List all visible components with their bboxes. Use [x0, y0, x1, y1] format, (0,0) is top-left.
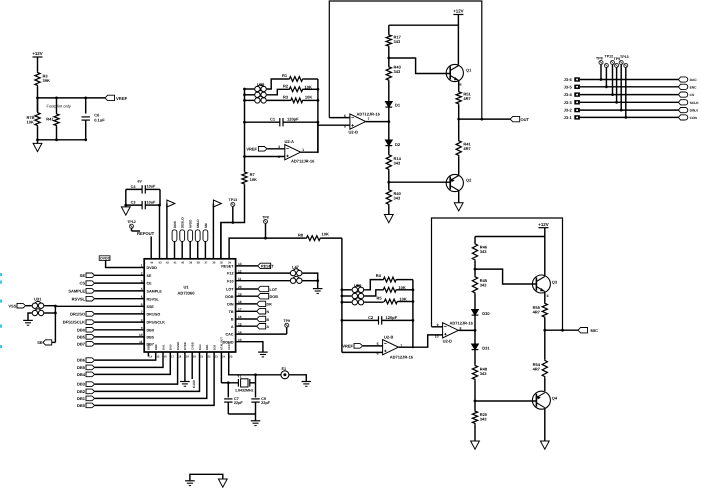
svg-text:XTALOUT: XTALOUT [220, 337, 224, 350]
svg-text:343: 343 [394, 69, 401, 74]
wire [398, 301, 413, 303]
svg-text:TP9: TP9 [283, 319, 290, 323]
svg-text:AD712JR-16: AD712JR-16 [450, 320, 474, 325]
svg-text:DB1: DB1 [205, 344, 209, 350]
svg-text:SSE: SSE [147, 305, 155, 309]
wire [95, 329, 144, 331]
svg-text:E1: E1 [282, 367, 287, 371]
wire output to bus [301, 151, 318, 153]
resistor R14 343 [386, 154, 391, 170]
svg-text:10K: 10K [305, 84, 312, 89]
svg-text:U1: U1 [183, 285, 189, 290]
wire [28, 313, 32, 320]
ground DGND bottom pin [184, 352, 186, 382]
wire [580, 94, 679, 96]
testpoint TP11 [624, 64, 628, 68]
svg-text:343: 343 [480, 417, 487, 422]
testpoint TP12 [130, 224, 134, 228]
svg-text:7: 7 [368, 117, 370, 121]
wire feedback box 2 [432, 218, 563, 330]
svg-text:DB8: DB8 [154, 344, 158, 350]
wire output [458, 329, 475, 331]
wire to Q3 base [475, 269, 536, 284]
wire pin6 from jumper [55, 305, 144, 307]
power flag pin 42 [166, 204, 168, 259]
tag SCLK [678, 100, 687, 105]
svg-text:DFS/SCLK: DFS/SCLK [147, 321, 166, 325]
svg-text:DA4: DA4 [198, 344, 202, 350]
svg-text:18: 18 [178, 355, 182, 359]
svg-text:C2: C2 [368, 315, 374, 320]
svg-text:A: A [231, 325, 234, 329]
svg-text:44: 44 [150, 261, 154, 265]
wire [106, 260, 145, 267]
ground [540, 441, 549, 449]
svg-text:DFS1/SCLK: DFS1/SCLK [63, 320, 85, 325]
svg-text:B: B [231, 318, 234, 322]
svg-text:R4: R4 [376, 273, 382, 278]
svg-text:E: E [460, 83, 462, 87]
svg-text:+12V: +12V [32, 51, 42, 56]
wire [321, 237, 342, 239]
svg-text:AD712JR-16: AD712JR-16 [390, 354, 414, 359]
resistor R45 343 [472, 276, 477, 294]
bottom pin stubs [147, 352, 149, 357]
wire REFOUT [150, 237, 152, 259]
svg-text:4R7: 4R7 [533, 367, 541, 372]
wire to U2-D noninv [413, 335, 443, 347]
wire [317, 122, 319, 153]
wire [245, 94, 255, 96]
svg-text:MIC: MIC [591, 328, 598, 333]
wire to Q2 base [389, 181, 450, 183]
svg-text:120pF: 120pF [287, 117, 299, 122]
svg-text:22pF: 22pF [234, 401, 244, 405]
tag LOT [236, 288, 258, 290]
wire [474, 350, 476, 365]
svg-text:VSS: VSS [8, 303, 16, 308]
wire [302, 280, 317, 282]
resistor R41 [54, 113, 59, 126]
svg-text:20: 20 [193, 355, 197, 359]
IC U1 AD73360 [144, 259, 235, 352]
svg-text:LOT: LOT [226, 288, 234, 292]
wire [329, 117, 350, 119]
svg-text:CAC: CAC [226, 333, 234, 337]
wire [250, 382, 256, 384]
wire [95, 298, 144, 300]
wire [457, 15, 459, 65]
svg-text:J3-1: J3-1 [564, 115, 573, 120]
svg-text:DR1/SO: DR1/SO [70, 312, 85, 317]
svg-text:LOT: LOT [270, 288, 278, 292]
svg-text:N: N [267, 310, 270, 314]
wire [412, 320, 414, 348]
svg-text:D30: D30 [482, 311, 490, 316]
capacitor C6 0.1uF [82, 116, 90, 118]
wire [388, 170, 390, 189]
wire [363, 345, 383, 347]
svg-text:D30: D30 [212, 344, 216, 350]
wire [37, 57, 39, 72]
svg-text:Q3: Q3 [552, 280, 558, 285]
svg-text:R1: R1 [282, 73, 288, 78]
svg-text:DOB: DOB [225, 295, 234, 299]
svg-text:D31: D31 [482, 346, 490, 351]
ground [23, 319, 33, 321]
svg-text:120pF: 120pF [386, 315, 398, 320]
svg-text:DIN,0: DIN,0 [690, 109, 699, 113]
svg-text:RSVSL: RSVSL [147, 297, 160, 301]
wire collector [544, 245, 546, 276]
svg-text:343: 343 [394, 39, 401, 44]
wire [388, 146, 390, 154]
svg-text:C100: C100 [192, 380, 196, 388]
wire [388, 205, 390, 214]
resistor R3 10K [290, 98, 304, 103]
svg-text:U2-B: U2-B [349, 130, 358, 135]
resistor R17 343 [386, 34, 391, 47]
svg-text:AD712JR-16: AD712JR-16 [357, 112, 381, 117]
ground earth [185, 480, 195, 482]
svg-text:36: 36 [212, 261, 216, 265]
wire [289, 375, 306, 382]
wire [580, 79, 679, 81]
wire [342, 301, 352, 303]
wire [95, 352, 178, 384]
testpoint TP14 pin14 [236, 333, 287, 335]
resistor R46 343 [472, 243, 477, 261]
svg-text:6: 6 [344, 114, 346, 118]
svg-text:TP13: TP13 [620, 55, 629, 59]
svg-text:DB9: DB9 [147, 344, 151, 350]
svg-text:39: 39 [189, 261, 193, 265]
svg-text:CVDD: CVDD [191, 342, 195, 350]
wire right bus gain2 [412, 280, 414, 321]
wire [228, 413, 255, 415]
ground [258, 351, 268, 353]
svg-text:14: 14 [149, 355, 153, 359]
wire left bus gain2 [341, 238, 343, 352]
svg-text:SCLK: SCLK [690, 101, 700, 105]
svg-text:TP12: TP12 [127, 220, 136, 224]
svg-text:DESLO: DESLO [181, 217, 185, 229]
svg-text:DB7: DB7 [77, 342, 86, 347]
ground [255, 414, 257, 421]
svg-text:6V: 6V [138, 180, 143, 184]
svg-text:15: 15 [156, 355, 160, 359]
wire [474, 380, 476, 410]
svg-text:D2: D2 [395, 142, 401, 147]
svg-text:J3-5: J3-5 [564, 84, 573, 89]
wire [85, 120, 87, 140]
svg-text:25: 25 [229, 355, 233, 359]
wire [544, 377, 546, 391]
svg-text:DGND: DGND [176, 342, 180, 350]
wire [364, 280, 382, 290]
wire [267, 99, 290, 101]
svg-text:TP8: TP8 [262, 215, 269, 219]
wire [245, 99, 255, 101]
svg-text:REFOUT: REFOUT [137, 231, 155, 236]
wire [364, 301, 384, 303]
svg-text:SE: SE [37, 340, 43, 345]
capacitor C3 120pF [342, 319, 378, 321]
diode D1 [385, 102, 392, 108]
wire [388, 47, 390, 66]
ground [384, 215, 393, 223]
svg-text:38: 38 [197, 261, 201, 265]
svg-text:10K: 10K [399, 297, 406, 302]
testpoint TP8 [264, 220, 268, 224]
tag B [236, 318, 257, 320]
svg-text:RESET: RESET [261, 265, 274, 269]
node VREF [36, 97, 39, 100]
ground [121, 207, 130, 215]
wire [544, 409, 546, 442]
node summing bus [244, 89, 246, 171]
svg-text:SMLD: SMLD [196, 219, 200, 229]
svg-text:10K: 10K [322, 231, 329, 236]
net label SMLD [197, 242, 199, 259]
svg-text:ENC: ENC [690, 85, 698, 89]
wire to Q1 base [389, 58, 450, 74]
wire [458, 191, 460, 203]
svg-text:OUT: OUT [521, 117, 530, 122]
svg-text:17: 17 [171, 355, 175, 359]
svg-text:21: 21 [200, 355, 204, 359]
wire top rail [389, 24, 459, 26]
svg-text:37: 37 [204, 261, 208, 265]
wire [388, 81, 390, 102]
svg-text:DB1: DB1 [77, 396, 86, 401]
svg-text:AD73360: AD73360 [178, 291, 196, 296]
resistor R7 10K [242, 171, 247, 185]
ground [471, 441, 480, 449]
svg-text:R8: R8 [298, 232, 304, 237]
svg-text:SE: SE [147, 274, 152, 278]
resistor R55 4R7 [542, 303, 547, 319]
svg-text:C7: C7 [234, 397, 239, 401]
resistor R1 [289, 77, 304, 82]
tag DOB [236, 295, 258, 297]
resistor R7B 10K [37, 98, 39, 112]
svg-text:DB2: DB2 [77, 389, 86, 394]
svg-text:U2-D: U2-D [443, 339, 452, 344]
resistor R20 343 [472, 410, 477, 424]
wire [95, 274, 144, 276]
transistor Q1 [446, 64, 463, 81]
svg-text:Footprint only: Footprint only [47, 104, 71, 109]
testpoint TP8 [599, 61, 603, 65]
wire [342, 295, 352, 297]
wire [388, 107, 390, 140]
wire feedback box [329, 1, 482, 119]
ground [302, 381, 312, 383]
wire output [366, 121, 389, 123]
svg-text:TB: TB [229, 310, 234, 314]
svg-text:J3-4: J3-4 [564, 92, 573, 97]
tag DAC [678, 77, 687, 82]
svg-text:24: 24 [222, 355, 226, 359]
wire [44, 305, 55, 307]
diode D31 [472, 344, 479, 350]
svg-text:DB3: DB3 [77, 382, 86, 387]
wire [580, 101, 679, 103]
tag ENC [678, 84, 687, 89]
svg-text:CS: CS [79, 281, 85, 286]
tag CS [678, 92, 687, 97]
wire [458, 81, 460, 91]
svg-text:TP12: TP12 [605, 55, 614, 59]
wire pin35 to R7 chain [220, 223, 222, 259]
svg-text:F10: F10 [227, 279, 233, 283]
svg-text:343: 343 [480, 283, 487, 288]
svg-text:4R7: 4R7 [533, 310, 541, 315]
transistor Q3 [532, 275, 550, 293]
testpoint TP12 [604, 64, 608, 68]
wire [95, 352, 156, 360]
wire [580, 109, 679, 111]
wire [302, 273, 317, 289]
wire [37, 98, 39, 112]
svg-text:23: 23 [215, 355, 219, 359]
tag VREF output [105, 95, 115, 100]
wire [95, 336, 144, 338]
testpoint TP13 [231, 203, 235, 207]
svg-text:E: E [547, 294, 549, 298]
capacitor C1 120pF [245, 121, 280, 123]
resistor R41 4R7 [458, 119, 460, 140]
svg-text:B: B [267, 318, 270, 322]
wire [397, 289, 413, 291]
wire [125, 189, 127, 207]
svg-text:J3-6: J3-6 [564, 77, 573, 82]
svg-text:22: 22 [207, 355, 211, 359]
capacitor C9 22pF [255, 383, 257, 398]
svg-text:22pF: 22pF [261, 401, 271, 405]
wire [474, 315, 476, 344]
svg-text:Q1: Q1 [466, 68, 472, 73]
svg-text:343: 343 [394, 196, 401, 201]
resistor R54 4R7 [544, 330, 546, 359]
svg-text:A: A [267, 325, 270, 329]
svg-text:DVDD: DVDD [183, 342, 187, 350]
svg-text:R41: R41 [46, 116, 54, 121]
wire pin43 to caps [159, 205, 161, 259]
svg-text:SAMPLE: SAMPLE [147, 290, 163, 294]
diode D2 [385, 140, 392, 146]
wire [304, 78, 318, 80]
svg-text:CS: CS [690, 93, 695, 97]
svg-text:SM: SM [204, 223, 208, 228]
wire [267, 79, 289, 89]
svg-text:9: 9 [437, 323, 439, 327]
wire noninverting from U2-A [318, 122, 350, 125]
svg-text:DB5: DB5 [77, 335, 86, 340]
resistor R51 4R7 [456, 91, 461, 105]
ground [33, 143, 42, 151]
wire [580, 116, 679, 118]
wire feedback bus right [317, 79, 319, 122]
capacitor C7 22pF [227, 383, 229, 398]
wire [544, 318, 546, 330]
wire [56, 98, 58, 113]
svg-text:SAMPLE: SAMPLE [68, 289, 85, 294]
wire [44, 312, 55, 314]
svg-text:10: 10 [435, 334, 439, 338]
op-amp U2-A AD712JR-16 [285, 145, 301, 160]
wire [95, 352, 163, 367]
wire [95, 352, 207, 398]
wire output 2 [398, 346, 413, 348]
svg-text:10uF: 10uF [147, 200, 157, 204]
capacitor C100 [191, 352, 193, 379]
crystal Y1 1.8432MHz [220, 352, 222, 383]
svg-text:VREF: VREF [246, 146, 257, 151]
tag RESET [236, 265, 258, 267]
svg-text:DVDD: DVDD [147, 266, 158, 270]
resistor R3 39K [35, 72, 40, 87]
svg-text:U2-B: U2-B [384, 335, 393, 340]
wire [580, 86, 679, 88]
svg-text:10K: 10K [305, 95, 312, 100]
svg-text:CE: CE [147, 282, 153, 286]
wire [54, 306, 56, 343]
wire [397, 279, 413, 281]
svg-text:DOB: DOB [270, 295, 279, 299]
wire [95, 313, 144, 315]
wire [304, 88, 318, 90]
testpoint TP9 [611, 61, 615, 65]
svg-text:10K: 10K [27, 120, 34, 125]
op-amp U2-D AD712JR-16 [443, 323, 459, 338]
wire [159, 189, 161, 205]
wire [364, 290, 382, 296]
svg-text:R2: R2 [283, 84, 289, 89]
wire pin34 to gain2 [229, 238, 306, 259]
svg-text:DA1: DA1 [161, 344, 165, 350]
net label SM [204, 242, 206, 259]
wire [38, 97, 106, 99]
wire [245, 88, 255, 90]
wire [342, 289, 352, 291]
testpoint TP13 [615, 64, 619, 68]
resistor R2 10K [289, 87, 304, 92]
tag CON [678, 115, 687, 120]
svg-text:VREF: VREF [116, 96, 128, 101]
wire [432, 326, 443, 328]
op-amp U2-C AD712JR-16 [383, 340, 399, 355]
svg-text:DB4: DB4 [77, 372, 86, 377]
svg-text:VREF: VREF [342, 344, 353, 349]
tag DR [236, 303, 257, 305]
capacitor C3 10uF [126, 204, 142, 206]
net label DOB [174, 242, 176, 259]
capacitor C4 10uF [126, 188, 142, 190]
svg-text:DB0: DB0 [147, 328, 154, 332]
svg-text:19: 19 [186, 355, 190, 359]
svg-text:16: 16 [164, 355, 168, 359]
svg-text:4R7: 4R7 [463, 96, 471, 101]
svg-text:DR1/SO: DR1/SO [147, 313, 161, 317]
svg-text:F12: F12 [227, 272, 233, 276]
wire [544, 228, 546, 245]
wire [26, 305, 32, 307]
resistor R40 343 [386, 189, 391, 205]
svg-text:AVDD: AVDD [189, 219, 193, 228]
resistor R43 343 [386, 66, 391, 81]
